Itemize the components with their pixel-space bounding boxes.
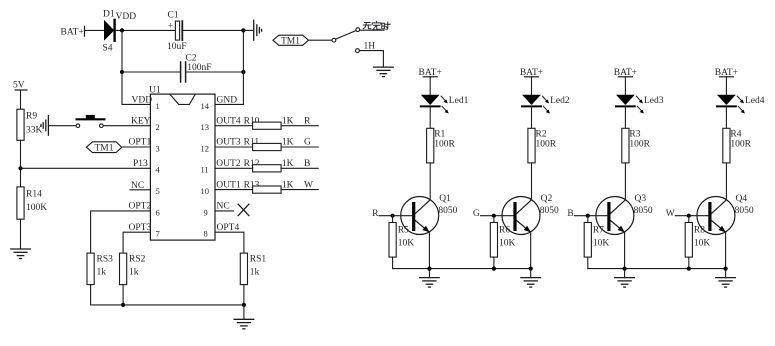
svg-text:OPT4: OPT4 bbox=[217, 223, 240, 233]
svg-text:100R: 100R bbox=[730, 139, 751, 149]
svg-text:Led1: Led1 bbox=[449, 96, 469, 106]
wire net W to Q4 base bbox=[675, 215, 708, 217]
no-connect X mark pin9 bbox=[238, 204, 249, 215]
svg-text:W: W bbox=[304, 180, 313, 190]
svg-text:B: B bbox=[567, 209, 573, 219]
svg-text:100R: 100R bbox=[536, 139, 557, 149]
node VDD junction bbox=[120, 28, 124, 32]
node C2 right junction bbox=[241, 70, 245, 74]
svg-text:TM1: TM1 bbox=[281, 37, 300, 47]
wire base junction to R6 bbox=[493, 216, 495, 223]
svg-text:OUT2: OUT2 bbox=[216, 159, 241, 169]
wire net R to Q1 base bbox=[379, 215, 412, 217]
svg-text:8050: 8050 bbox=[634, 206, 653, 216]
svg-text:10K: 10K bbox=[398, 238, 415, 248]
svg-text:G: G bbox=[304, 138, 311, 148]
wire upper throw terminal bbox=[360, 29, 384, 31]
wire R8 to rail bbox=[688, 257, 690, 269]
wire Q2 emitter down bbox=[530, 232, 532, 268]
svg-text:1K: 1K bbox=[282, 138, 294, 148]
svg-text:10K: 10K bbox=[694, 238, 711, 248]
wire base junction to R7 bbox=[587, 216, 589, 223]
svg-text:Q1: Q1 bbox=[439, 194, 451, 204]
wire C2 right bbox=[186, 71, 243, 73]
wire ground rail stages 1-2 bbox=[393, 268, 531, 270]
wire R7 to rail bbox=[587, 257, 589, 269]
switch SW1 lower throw contact bbox=[356, 49, 360, 53]
wire RS2 to rail bbox=[122, 285, 124, 305]
resistor R4 bbox=[723, 128, 730, 163]
ground (stage 2) bbox=[521, 278, 541, 288]
svg-text:R: R bbox=[372, 209, 379, 219]
capacitor C1 10uF bbox=[168, 21, 182, 41]
wire BAT+ to LED (stage 2) bbox=[531, 77, 533, 95]
wire GND vertical (right) bbox=[242, 30, 244, 104]
wire NC pin5 stub bbox=[130, 189, 150, 191]
svg-text:R: R bbox=[304, 116, 311, 126]
svg-text:Q2: Q2 bbox=[541, 194, 553, 204]
svg-text:33K: 33K bbox=[26, 126, 43, 136]
svg-text:1: 1 bbox=[156, 101, 160, 111]
wire LED to R1 bbox=[429, 106, 431, 128]
svg-text:1k: 1k bbox=[97, 268, 107, 278]
wire rail to ground (stage 3) bbox=[624, 269, 626, 278]
svg-text:3: 3 bbox=[156, 143, 160, 153]
svg-text:8050: 8050 bbox=[438, 206, 457, 216]
transistor Q3 8050 bbox=[596, 197, 634, 235]
capacitor C2 100nF bbox=[181, 62, 186, 82]
svg-text:B: B bbox=[304, 159, 310, 169]
IC U1 body bbox=[150, 94, 215, 240]
wire BAT+ tick (stage 1) bbox=[423, 76, 437, 78]
svg-text:13: 13 bbox=[201, 122, 210, 132]
svg-text:C2: C2 bbox=[186, 54, 197, 64]
svg-text:1k: 1k bbox=[250, 268, 260, 278]
resistor R7 bbox=[584, 223, 591, 258]
svg-text:D1: D1 bbox=[103, 10, 115, 20]
wire OUT4 pin13 to R10 bbox=[215, 125, 253, 127]
node R8 rail junction bbox=[687, 267, 691, 271]
ground (stage 3) bbox=[615, 278, 635, 288]
wire net G to Q2 base bbox=[481, 215, 514, 217]
svg-text:OUT3: OUT3 bbox=[216, 138, 241, 148]
svg-text:R5: R5 bbox=[398, 225, 409, 235]
svg-text:C1: C1 bbox=[168, 11, 179, 21]
node Q1 emitter rail junction bbox=[427, 267, 431, 271]
svg-text:TM1: TM1 bbox=[95, 144, 114, 154]
wire R12 to net B bbox=[281, 167, 318, 169]
resistor R6 bbox=[490, 223, 497, 258]
ground (key button, sideways) bbox=[41, 116, 48, 136]
switch SW1 lever bbox=[336, 31, 356, 39]
switch SW1 common contact bbox=[332, 38, 336, 42]
resistor RS1 bbox=[240, 253, 247, 285]
svg-text:OPT1: OPT1 bbox=[129, 138, 152, 148]
wire R10 to net R bbox=[281, 125, 318, 127]
wire RS ground rail bbox=[91, 304, 244, 306]
wire R11 to net G bbox=[281, 146, 318, 148]
svg-text:9: 9 bbox=[204, 207, 208, 217]
svg-text:R9: R9 bbox=[26, 112, 37, 122]
wire BAT+ to LED (stage 1) bbox=[429, 77, 431, 95]
svg-text:VDD: VDD bbox=[116, 12, 137, 22]
transistor Q4 8050 bbox=[697, 197, 735, 235]
resistor R12 1K bbox=[253, 165, 282, 172]
svg-text:BAT+: BAT+ bbox=[61, 28, 84, 38]
ground (stage 4) bbox=[716, 278, 736, 288]
wire button to KEY pin2 bbox=[103, 125, 150, 127]
net tag TM1 (timer select) bbox=[273, 35, 309, 47]
svg-text:R7: R7 bbox=[593, 225, 604, 235]
wire Q3 emitter down bbox=[624, 232, 626, 268]
switch SW1 upper throw contact bbox=[356, 28, 360, 32]
svg-text:8050: 8050 bbox=[540, 206, 559, 216]
svg-text:U1: U1 bbox=[149, 86, 161, 96]
wire node to ground bbox=[243, 29, 253, 31]
wire Q4 emitter down bbox=[725, 232, 727, 268]
svg-text:RS2: RS2 bbox=[129, 255, 146, 265]
wire R14 to ground bbox=[20, 219, 22, 249]
node Q2 emitter rail junction bbox=[529, 267, 533, 271]
svg-text:10uF: 10uF bbox=[167, 42, 187, 52]
wire OPT2 pin6 bbox=[91, 211, 151, 253]
svg-text:R2: R2 bbox=[536, 129, 547, 139]
push button S1 left contact bbox=[76, 124, 80, 128]
wire BAT+ to LED (stage 3) bbox=[624, 77, 626, 95]
node R6 rail junction bbox=[492, 267, 496, 271]
wire pin1 VDD stub bbox=[122, 103, 150, 105]
svg-text:1H: 1H bbox=[364, 42, 376, 52]
svg-text:Q4: Q4 bbox=[736, 194, 748, 204]
push button S1 right contact bbox=[100, 124, 104, 128]
node P13 junction bbox=[18, 166, 22, 170]
wire BAT+ tick (stage 3) bbox=[618, 76, 632, 78]
svg-text:OPT3: OPT3 bbox=[129, 223, 152, 233]
node Q2 base junction bbox=[492, 214, 496, 218]
svg-text:5V: 5V bbox=[13, 81, 25, 91]
svg-text:P13: P13 bbox=[133, 159, 148, 169]
wire NC pin9 stub bbox=[215, 210, 234, 212]
wire key ground to button bbox=[48, 125, 76, 127]
svg-text:R14: R14 bbox=[26, 190, 42, 200]
LED Led1 bbox=[421, 95, 449, 114]
svg-text:R4: R4 bbox=[730, 129, 741, 139]
IC U1 notch bbox=[170, 94, 195, 104]
svg-text:7: 7 bbox=[156, 229, 160, 239]
ground (below R14) bbox=[11, 249, 31, 259]
svg-text:GND: GND bbox=[217, 96, 238, 106]
svg-text:Led3: Led3 bbox=[644, 96, 664, 106]
wire ground rail stages 3-4 bbox=[588, 268, 726, 270]
wire net B to Q3 base bbox=[574, 215, 607, 217]
resistor R14 bbox=[17, 187, 24, 219]
wire lower throw to ground bbox=[360, 51, 384, 68]
wire rail to ground (stage 4) bbox=[725, 269, 727, 278]
wire 5V to R9 bbox=[20, 90, 22, 109]
svg-text:VDD: VDD bbox=[132, 96, 153, 106]
svg-text:Q3: Q3 bbox=[635, 194, 647, 204]
svg-text:KEY: KEY bbox=[131, 116, 151, 126]
wire R1 to Q1 collector bbox=[429, 163, 431, 200]
resistor R5 bbox=[389, 223, 396, 258]
svg-text:100R: 100R bbox=[434, 139, 455, 149]
wire RS3 to rail bbox=[90, 285, 92, 305]
wire rail to ground (stage 2) bbox=[530, 269, 532, 278]
transistor Q2 8050 bbox=[502, 197, 540, 235]
svg-text:10K: 10K bbox=[593, 238, 610, 248]
wire BAT+ to LED (stage 4) bbox=[725, 77, 727, 95]
resistor R2 bbox=[528, 128, 535, 163]
svg-text:11: 11 bbox=[201, 165, 209, 175]
node RS1 rail junction bbox=[242, 303, 246, 307]
wire R4 to Q4 collector bbox=[725, 163, 727, 200]
svg-text:OUT1: OUT1 bbox=[216, 180, 241, 190]
push button S1 actuator bar bbox=[77, 115, 105, 119]
ground (timer 1H) bbox=[374, 67, 394, 77]
wire base junction to R5 bbox=[392, 216, 394, 223]
wire R3 to Q3 collector bbox=[624, 163, 626, 200]
svg-text:100K: 100K bbox=[26, 203, 47, 213]
wire TM1 to switch common bbox=[309, 39, 332, 41]
svg-text:W: W bbox=[666, 209, 675, 219]
wire OUT3 pin12 to R11 bbox=[215, 146, 253, 148]
svg-text:R1: R1 bbox=[434, 129, 445, 139]
svg-text:R8: R8 bbox=[694, 225, 705, 235]
svg-text:1k: 1k bbox=[129, 268, 139, 278]
node C2 left junction bbox=[120, 70, 124, 74]
wire BAT+ tick (stage 2) bbox=[525, 76, 539, 78]
svg-text:100R: 100R bbox=[629, 139, 650, 149]
wire BAT+ terminal tick bbox=[84, 26, 86, 36]
resistor RS2 bbox=[120, 253, 127, 285]
wire OUT1 pin10 to R13 bbox=[215, 189, 253, 191]
svg-text:6: 6 bbox=[156, 207, 160, 217]
node Q4 emitter rail junction bbox=[724, 267, 728, 271]
node Q3 base junction bbox=[586, 214, 590, 218]
ground (top right, sideways) bbox=[254, 20, 262, 40]
svg-text:RS1: RS1 bbox=[250, 255, 267, 265]
wire OUT2 pin11 to R12 bbox=[215, 167, 253, 169]
wire R6 to rail bbox=[493, 257, 495, 269]
svg-text:2: 2 bbox=[156, 122, 160, 132]
wire TM1 to OPT1 pin3 bbox=[122, 146, 151, 148]
svg-text:8: 8 bbox=[204, 229, 208, 239]
wire R9 to R14 bbox=[20, 140, 22, 187]
resistor R9 bbox=[17, 109, 24, 140]
wire R5 to rail bbox=[392, 257, 394, 269]
svg-text:8050: 8050 bbox=[735, 206, 754, 216]
node Q3 emitter rail junction bbox=[623, 267, 627, 271]
resistor R1 bbox=[427, 128, 434, 163]
node Q4 base junction bbox=[687, 214, 691, 218]
svg-text:NC: NC bbox=[131, 181, 144, 191]
wire Q1 emitter down bbox=[428, 232, 430, 268]
svg-text:10: 10 bbox=[201, 186, 210, 196]
svg-text:10K: 10K bbox=[499, 238, 516, 248]
ground (below RS1) bbox=[234, 319, 254, 329]
resistor R11 1K bbox=[253, 143, 282, 150]
svg-text:+: + bbox=[168, 21, 173, 31]
wire pin14 GND stub bbox=[215, 103, 243, 105]
svg-text:OUT4: OUT4 bbox=[216, 116, 241, 126]
svg-text:Led2: Led2 bbox=[550, 96, 570, 106]
wire C1 to top-right node bbox=[183, 29, 243, 31]
svg-text:G: G bbox=[473, 209, 480, 219]
svg-text:Led4: Led4 bbox=[745, 96, 765, 106]
LED Led2 bbox=[522, 95, 550, 114]
wire rail to ground (stage 1) bbox=[428, 269, 430, 278]
svg-text:RS3: RS3 bbox=[97, 255, 114, 265]
svg-text:OPT2: OPT2 bbox=[129, 202, 152, 212]
wire OPT4 pin8 bbox=[215, 232, 244, 253]
node Q1 base junction bbox=[391, 214, 395, 218]
wire RS1 to ground bbox=[243, 285, 245, 320]
svg-text:S4: S4 bbox=[103, 44, 113, 54]
resistor R3 bbox=[622, 128, 629, 163]
resistor R8 bbox=[685, 223, 692, 258]
transistor Q1 8050 bbox=[401, 197, 439, 235]
wire LED to R3 bbox=[624, 106, 626, 128]
svg-text:R6: R6 bbox=[499, 225, 510, 235]
svg-text:R3: R3 bbox=[629, 129, 640, 139]
wire P13 row to pin4 bbox=[21, 167, 151, 169]
wire diode cathode to C1 bbox=[116, 29, 175, 31]
net tag TM1 (at OPT1) bbox=[86, 142, 121, 154]
ground (stage 1) bbox=[420, 278, 440, 288]
svg-text:1K: 1K bbox=[282, 159, 294, 169]
resistor RS3 bbox=[87, 253, 94, 285]
label 无定时 (no timing) bbox=[363, 21, 390, 30]
diode D1 (S4) bbox=[104, 20, 115, 41]
wire 5V terminal tick bbox=[15, 89, 27, 91]
node top-right junction bbox=[241, 28, 245, 32]
wire C2 left bbox=[122, 71, 180, 73]
svg-text:NC: NC bbox=[217, 202, 230, 212]
wire R13 to net W bbox=[281, 189, 318, 191]
svg-text:1K: 1K bbox=[282, 180, 294, 190]
wire LED to R2 bbox=[531, 106, 533, 128]
wire BAT+ to diode anode bbox=[85, 29, 105, 31]
svg-text:14: 14 bbox=[201, 101, 210, 111]
LED Led4 bbox=[717, 95, 745, 114]
node RS2 rail junction bbox=[121, 303, 125, 307]
svg-text:5: 5 bbox=[156, 186, 160, 196]
wire LED to R4 bbox=[725, 106, 727, 128]
svg-text:1K: 1K bbox=[282, 116, 294, 126]
wire R2 to Q2 collector bbox=[531, 163, 533, 200]
wire base junction to R8 bbox=[688, 216, 690, 223]
svg-text:12: 12 bbox=[201, 143, 210, 153]
resistor R13 1K bbox=[253, 186, 282, 193]
resistor R10 1K bbox=[253, 122, 282, 129]
wire VDD vertical (left) bbox=[121, 30, 123, 104]
wire BAT+ tick (stage 4) bbox=[719, 76, 733, 78]
LED Led3 bbox=[616, 95, 644, 114]
wire OPT3 pin7 bbox=[123, 232, 150, 253]
